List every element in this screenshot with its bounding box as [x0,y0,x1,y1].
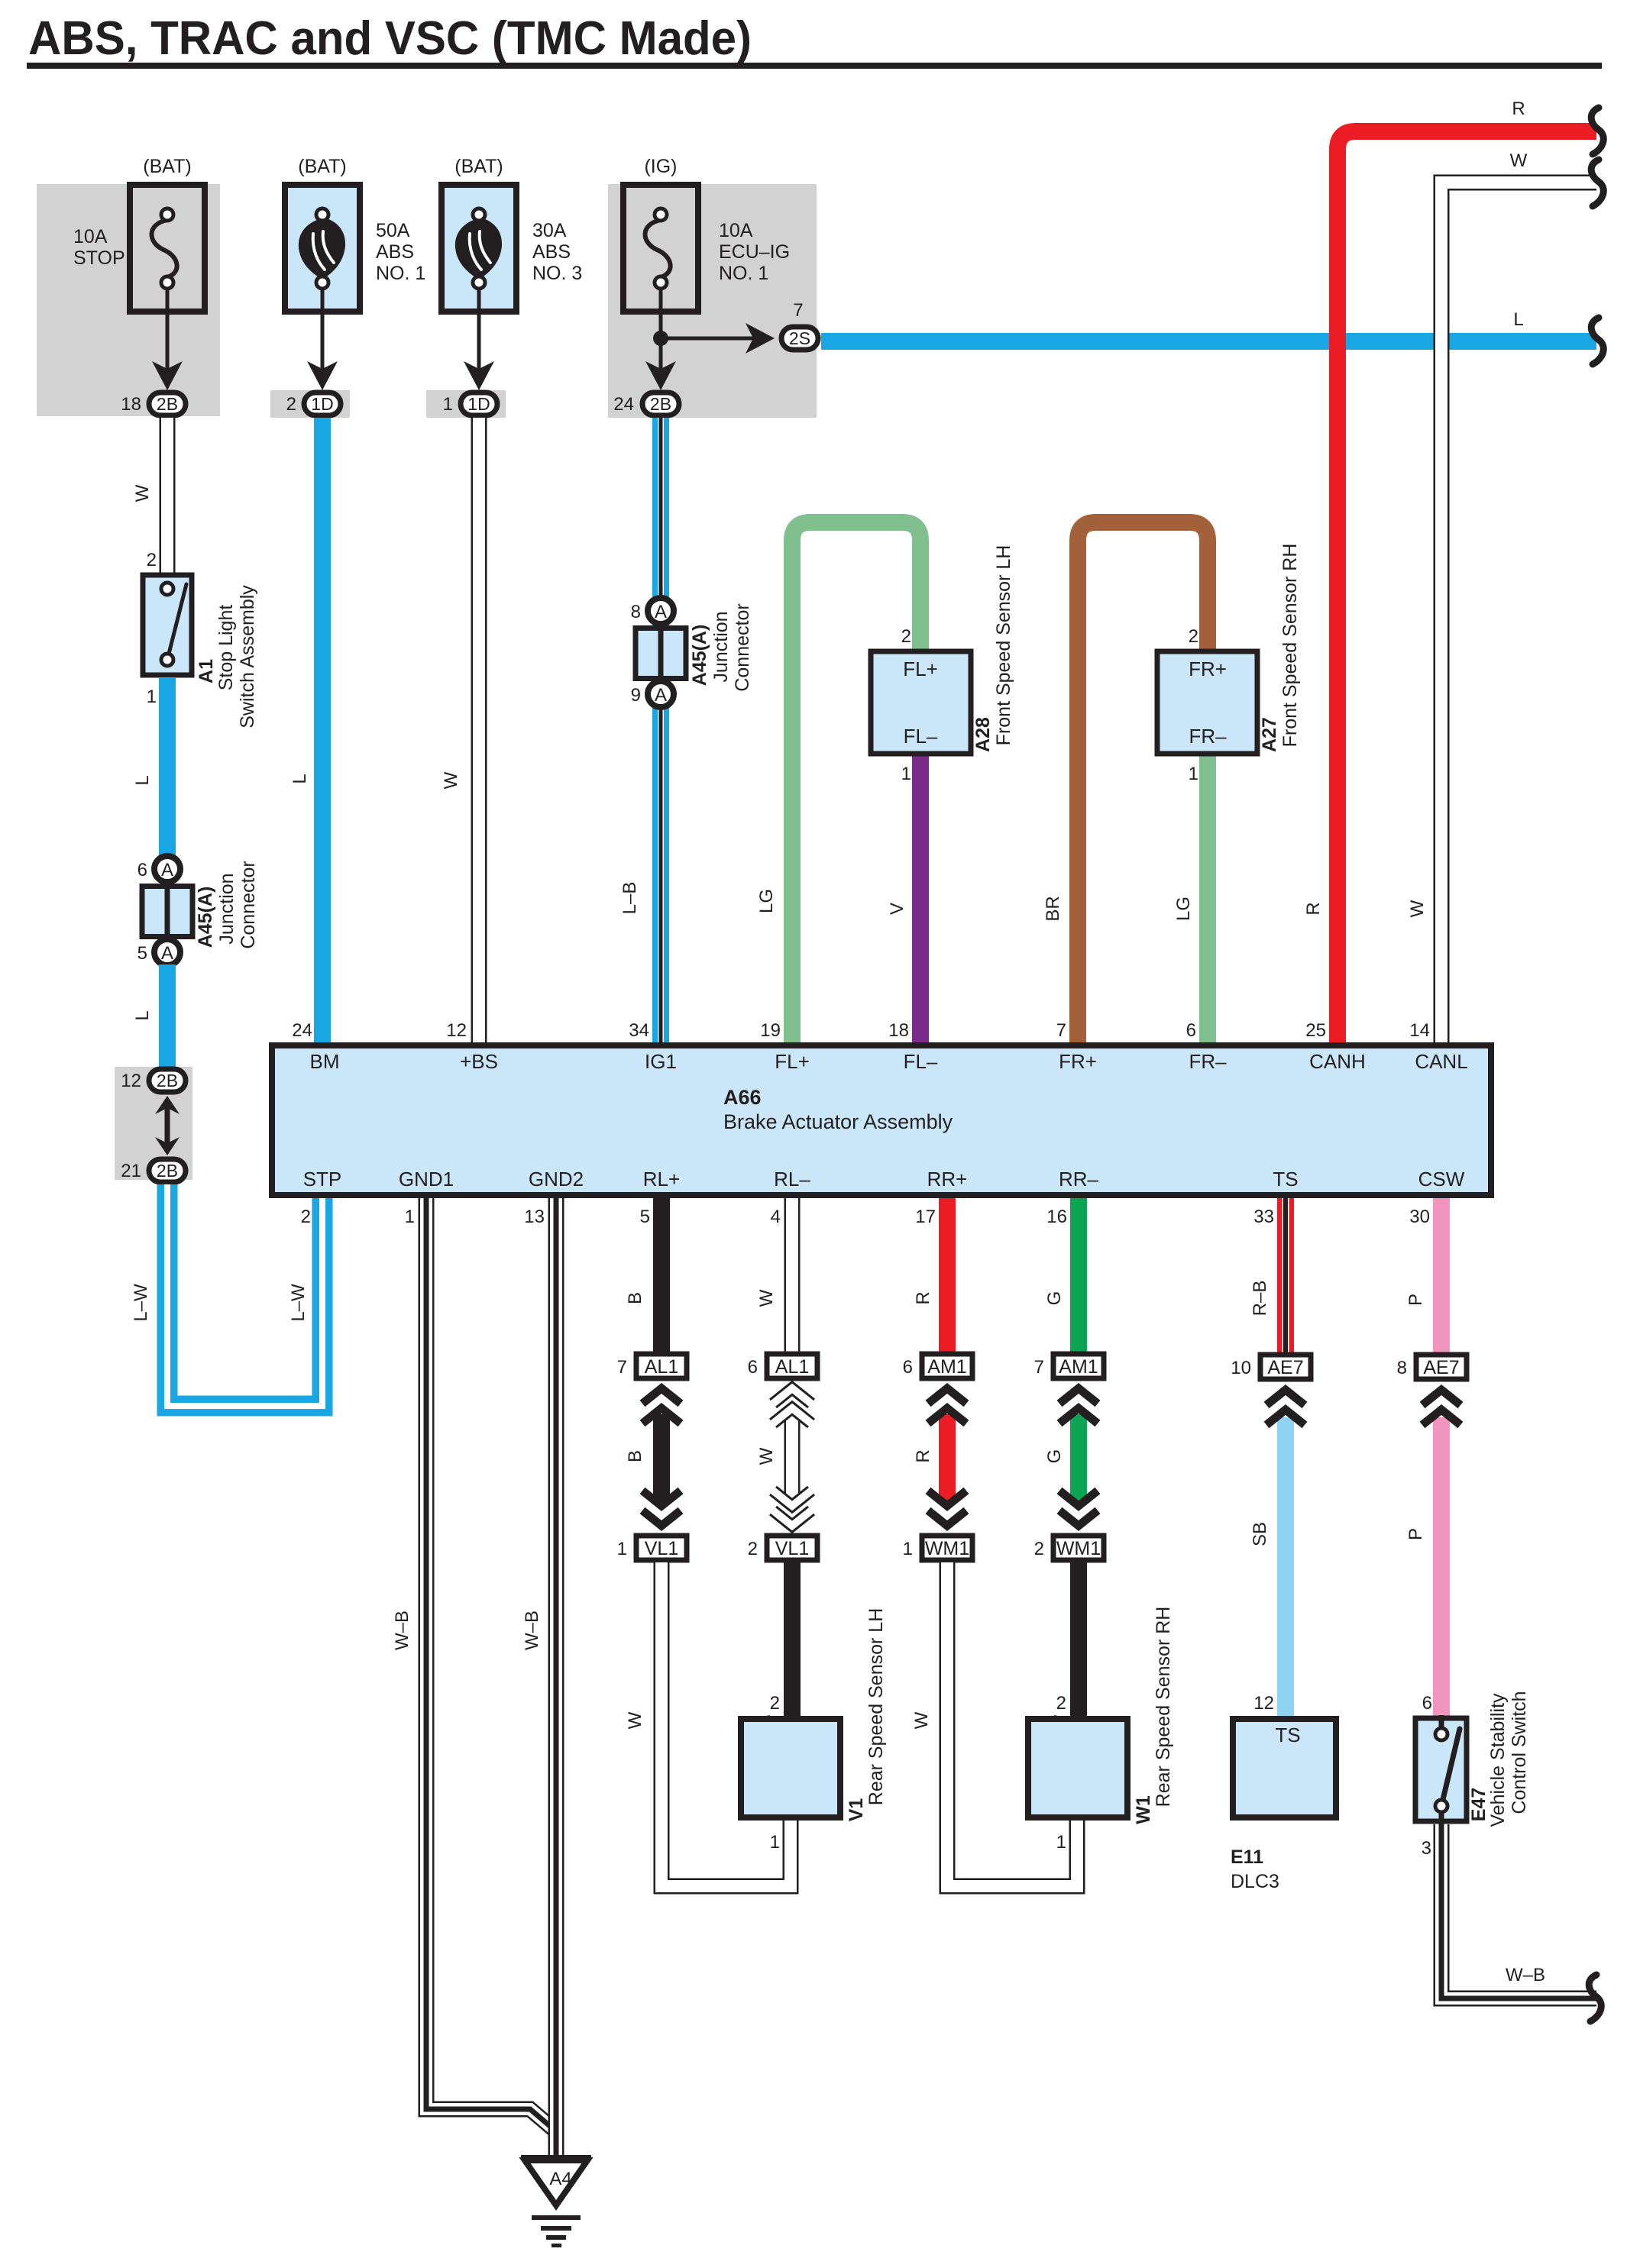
svg-text:RL+: RL+ [643,1168,680,1191]
svg-text:2: 2 [770,1693,780,1714]
harness arrows below 6 AM1 [928,1388,966,1404]
double arrow between 2B connectors [165,1103,170,1150]
svg-text:W–B: W–B [392,1611,412,1650]
connector 8 AE7 [1416,1355,1467,1379]
connector 1 WM1 [922,1536,972,1560]
svg-text:1: 1 [770,1832,780,1853]
svg-text:E11: E11 [1231,1846,1263,1868]
wire V purple from A28 FL- to A66 pin 18 [912,754,929,1045]
svg-text:(BAT): (BAT) [454,156,503,177]
svg-text:W: W [132,484,153,502]
svg-text:Connector: Connector [732,603,753,691]
svg-text:4: 4 [771,1207,781,1227]
svg-text:WM1: WM1 [925,1538,969,1559]
wire fuse STOP to connector 2B [166,289,170,378]
svg-text:WM1: WM1 [1056,1538,1101,1559]
wire L from A1 to junction connector [159,678,176,857]
svg-text:W–B: W–B [1506,1965,1545,1985]
svg-text:13: 13 [524,1207,545,1227]
svg-text:FR–: FR– [1189,725,1227,748]
wire B from A66 RL+ to 7 AL1 [653,1198,670,1352]
svg-text:AM1: AM1 [1059,1356,1098,1378]
svg-text:R: R [913,1291,933,1304]
connector 12 2B [149,1069,186,1092]
gray shield box around ECU-IG fuse, 2B and 2S connectors [608,184,817,418]
svg-text:A4: A4 [549,2169,571,2189]
fuse 30A ABS NO. 3 [442,185,516,312]
svg-text:16: 16 [1046,1207,1067,1227]
connector 2 VL1 [767,1536,817,1560]
svg-text:NO. 1: NO. 1 [719,263,768,284]
svg-text:7: 7 [617,1357,627,1378]
harness arrows below 7 AL1 [642,1388,681,1404]
harness arrows below 7 AM1 [1059,1388,1098,1404]
svg-text:A: A [161,943,173,964]
break symbol L wire [1591,318,1603,364]
svg-text:10A: 10A [73,226,108,247]
svg-text:7: 7 [793,300,803,321]
svg-text:2S: 2S [789,328,810,348]
svg-text:Junction: Junction [710,611,732,682]
svg-text:A27: A27 [1259,717,1280,752]
svg-text:6: 6 [903,1357,913,1378]
svg-text:10A: 10A [719,220,753,241]
break symbol W-B wire [1589,1975,1601,2021]
gray shield box around STOP fuse and 2B connector [37,184,220,416]
wire fuse ABS NO.3 to connector 1D [477,289,481,378]
wire W-B from E47 pin 3 to right edge [1441,1824,1596,1998]
junction connector A45(A) left [142,887,192,937]
svg-text:2B: 2B [157,394,178,414]
svg-text:G: G [1044,1449,1065,1464]
svg-text:W: W [756,1289,777,1307]
svg-text:IG1: IG1 [645,1050,677,1073]
svg-text:L: L [1513,309,1523,330]
rear speed sensor RH W1 [1028,1719,1127,1817]
svg-text:Connector: Connector [238,861,259,948]
wire L-W loop from 21 2B to A66 STP [167,1184,322,1406]
svg-text:E47: E47 [1468,1788,1490,1821]
svg-text:L–B: L–B [619,882,640,915]
svg-text:6: 6 [1186,1020,1196,1041]
brake actuator assembly A66 [272,1045,1491,1195]
harness arrows below 6 AL1 (white) [773,1388,811,1404]
svg-text:FL+: FL+ [775,1050,810,1073]
svg-text:VL1: VL1 [775,1538,809,1559]
wire SB from 10 AE7 to DLC3 [1277,1417,1294,1719]
svg-text:R: R [913,1449,933,1462]
svg-text:19: 19 [760,1020,781,1041]
fuse 10A STOP [130,185,205,312]
svg-text:STP: STP [303,1168,342,1191]
svg-text:L: L [132,1010,153,1020]
svg-text:1D: 1D [467,394,490,414]
svg-text:P: P [1405,1528,1426,1540]
svg-text:1: 1 [147,687,157,707]
connector 7 2S [781,327,818,350]
wire L from junction to 12 2B [159,964,176,1068]
svg-text:SB: SB [1250,1522,1270,1546]
svg-text:Rear Speed Sensor RH: Rear Speed Sensor RH [1153,1607,1174,1808]
svg-text:W–B: W–B [522,1611,542,1650]
svg-text:Vehicle Stability: Vehicle Stability [1487,1693,1509,1827]
svg-text:A: A [161,860,173,880]
svg-text:ECU–IG: ECU–IG [719,241,790,263]
svg-text:2: 2 [1189,626,1198,647]
svg-text:W: W [1407,900,1428,917]
svg-text:12: 12 [446,1020,467,1041]
svg-text:Switch Assembly: Switch Assembly [237,585,258,729]
svg-text:2: 2 [147,550,157,570]
svg-text:Brake Actuator Assembly: Brake Actuator Assembly [723,1110,953,1133]
svg-text:18: 18 [888,1020,909,1041]
svg-text:P: P [1405,1294,1426,1306]
wire CANH red from A66 pin 25 up and right [1338,131,1596,1045]
svg-text:30A: 30A [532,220,567,241]
wire W from 1D to A66 +BS [471,418,487,1045]
svg-text:A45(A): A45(A) [195,887,216,948]
wire B between AL1 and VL1 [653,1414,670,1504]
svg-text:1: 1 [443,394,453,415]
svg-text:L: L [132,775,153,785]
svg-text:6: 6 [137,860,147,880]
gray strip behind connector 2 1D [270,390,350,418]
svg-text:2B: 2B [157,1161,178,1181]
svg-text:A66: A66 [723,1086,762,1109]
connector 7 AL1 [636,1354,687,1378]
wire W from 1 WM1 looping to W1 pin 1 [947,1562,1077,1886]
svg-text:30: 30 [1409,1207,1430,1227]
svg-text:A45(A): A45(A) [689,625,710,687]
wire W-B from A66 GND1 to ground [426,1198,556,2131]
svg-text:AE7: AE7 [1423,1357,1459,1378]
svg-text:34: 34 [629,1020,649,1041]
svg-text:LG: LG [1173,897,1194,921]
svg-text:L–W: L–W [288,1284,309,1322]
svg-text:2: 2 [901,626,911,647]
wire L blue from 2S to right edge [821,333,1596,350]
connector 2 1D [304,393,341,415]
svg-text:2: 2 [1034,1539,1044,1559]
svg-text:8: 8 [631,602,641,622]
wire L from 1D to A66 BM [314,418,331,1045]
svg-text:2: 2 [1056,1693,1066,1714]
svg-text:2: 2 [748,1539,758,1559]
svg-text:Junction: Junction [216,873,238,944]
front speed sensor RH A27 [1157,651,1257,754]
wire W from 1 VL1 looping to V1 pin 1 [661,1562,791,1886]
svg-text:W: W [625,1711,645,1729]
svg-text:TS: TS [1273,1168,1298,1191]
svg-text:14: 14 [1409,1020,1430,1041]
svg-text:Stop Light: Stop Light [215,605,237,691]
vehicle stability control switch E47 [1415,1718,1467,1821]
wire W between AL1 and VL1 [784,1414,801,1504]
svg-text:7: 7 [1056,1020,1066,1041]
svg-text:FL–: FL– [904,725,938,748]
svg-text:TS: TS [1275,1724,1300,1746]
stop light switch A1 [143,575,192,675]
svg-text:AM1: AM1 [927,1356,966,1378]
svg-text:1: 1 [901,764,911,784]
wire R-B from A66 TS to 10 AE7 [1277,1198,1294,1355]
svg-text:5: 5 [640,1207,650,1227]
svg-text:2B: 2B [650,394,671,414]
svg-text:1: 1 [903,1539,913,1559]
rear speed sensor LH V1 [741,1719,840,1817]
title underline [27,63,1602,69]
svg-text:A: A [655,602,667,622]
svg-text:7: 7 [1034,1357,1044,1378]
branch wire to 2S [661,337,760,341]
wire R between AM1 and WM1 [939,1414,956,1504]
wire BR loop from A27 FR+ to A66 pin 7 [1078,522,1208,1045]
connector 1 VL1 [636,1536,687,1560]
connector 24 2B [642,393,679,415]
connector 2 WM1 [1053,1536,1104,1560]
svg-text:W: W [911,1711,932,1729]
svg-text:(BAT): (BAT) [143,156,191,177]
svg-text:1: 1 [1189,764,1198,784]
svg-text:B: B [625,1450,645,1462]
junction dot [653,331,668,346]
svg-text:Front Speed Sensor LH: Front Speed Sensor LH [993,545,1014,746]
svg-text:17: 17 [915,1207,936,1227]
break symbol R wire [1591,108,1603,154]
svg-text:25: 25 [1305,1020,1326,1041]
svg-text:ABS, TRAC and VSC (TMC Made): ABS, TRAC and VSC (TMC Made) [28,12,752,65]
wire fuse ABS NO.1 to connector 1D [321,289,325,378]
svg-text:FL–: FL– [904,1050,938,1073]
wire G between AM1 and WM1 [1070,1414,1087,1504]
svg-text:21: 21 [121,1161,141,1181]
svg-text:L: L [289,774,310,783]
svg-text:Control Switch: Control Switch [1509,1691,1530,1814]
harness arrows above 1 VL1 [642,1510,681,1526]
svg-text:NO. 1: NO. 1 [376,263,425,284]
wire B from 2 WM1 to W1 pin 2 [1070,1562,1087,1716]
harness arrows below 8 AE7 [1422,1390,1460,1405]
harness arrows below 10 AE7 [1266,1390,1305,1405]
connector 10 AE7 [1260,1355,1311,1379]
svg-text:FR+: FR+ [1189,657,1227,680]
svg-text:V: V [887,903,907,915]
svg-text:1: 1 [405,1207,415,1227]
svg-text:18: 18 [121,394,141,415]
harness arrows above 1 WM1 [928,1510,966,1526]
wire LG loop from A28 FL+ to A66 pin 19 [792,522,920,1045]
svg-text:W: W [1510,150,1528,171]
svg-text:10: 10 [1231,1358,1251,1378]
wire G from A66 RR- to 7 AM1 [1070,1198,1087,1352]
svg-text:+BS: +BS [460,1050,498,1073]
gray strip behind connector 1 1D [426,390,506,418]
connector 21 2B [149,1159,186,1182]
wire R from A66 RR+ to 6 AM1 [939,1198,956,1352]
front speed sensor LH A28 [871,651,971,754]
svg-text:CANL: CANL [1415,1050,1467,1073]
gray shield box around 12 2B / 21 2B connectors [115,1067,192,1180]
svg-text:24: 24 [613,394,634,415]
svg-text:NO. 3: NO. 3 [532,263,582,284]
svg-text:DLC3: DLC3 [1231,1871,1279,1892]
svg-text:LG: LG [756,889,777,913]
junction connector A45(A) on IG wire [636,628,686,679]
svg-text:2: 2 [286,394,296,415]
svg-text:AE7: AE7 [1267,1357,1303,1378]
svg-text:GND1: GND1 [399,1168,454,1191]
wire P from A66 CSW to 8 AE7 [1433,1198,1450,1355]
svg-text:BM: BM [310,1050,340,1073]
svg-text:(IG): (IG) [644,156,677,177]
svg-text:FL+: FL+ [903,657,938,680]
svg-text:W1: W1 [1133,1795,1154,1824]
connector 7 AM1 [1053,1354,1104,1378]
wire W-B from A66 GND2 to ground [548,1198,564,2155]
connector 6 AM1 [922,1354,972,1378]
DLC3 E11 [1233,1719,1336,1817]
svg-text:G: G [1044,1291,1065,1306]
svg-text:33: 33 [1253,1207,1274,1227]
svg-text:VL1: VL1 [645,1538,678,1559]
svg-text:R: R [1512,99,1525,119]
svg-text:1D: 1D [311,394,333,414]
svg-text:1: 1 [1056,1832,1066,1853]
svg-text:RR–: RR– [1059,1168,1099,1191]
svg-text:9: 9 [631,685,641,706]
svg-text:B: B [625,1292,645,1304]
wire B from 2 VL1 to V1 pin 2 [784,1562,801,1716]
wire CANL white from A66 pin 14 up and right [1441,183,1596,1045]
svg-text:2: 2 [301,1207,311,1227]
svg-text:A: A [655,685,667,706]
svg-text:24: 24 [292,1020,312,1041]
wire W from 18 2B to stop light switch [160,418,176,575]
svg-text:A28: A28 [972,717,994,752]
connector 1 1D [461,393,497,415]
svg-text:ABS: ABS [532,241,571,263]
svg-text:1: 1 [617,1539,627,1559]
svg-text:RR+: RR+ [927,1168,968,1191]
harness arrows above 2 WM1 [1059,1510,1098,1526]
svg-text:CANH: CANH [1309,1050,1366,1073]
svg-text:AL1: AL1 [775,1356,809,1378]
fuse 10A ECU-IG NO. 1 [623,185,698,312]
connector 18 2B [149,393,186,415]
svg-text:2B: 2B [157,1071,178,1090]
svg-text:AL1: AL1 [645,1356,678,1378]
svg-text:3: 3 [1422,1838,1431,1859]
svg-text:12: 12 [121,1071,141,1091]
svg-text:R: R [1303,902,1324,915]
svg-text:5: 5 [137,943,147,964]
wire L-B from 24 2B to A66 IG1 [652,418,669,1045]
wire LG from A27 FR- to A66 pin 6 [1199,754,1216,1045]
svg-text:RL–: RL– [774,1168,810,1191]
svg-text:ABS: ABS [376,241,414,263]
svg-text:Front Speed Sensor RH: Front Speed Sensor RH [1279,544,1301,748]
fuse 50A ABS NO. 1 [285,185,360,312]
svg-text:W: W [756,1447,777,1465]
svg-text:A1: A1 [196,659,217,683]
svg-text:BR: BR [1043,896,1063,921]
break symbol W wire [1591,160,1603,206]
svg-text:V1: V1 [846,1798,867,1822]
harness arrows above 2 VL1 (white) [773,1510,811,1526]
svg-text:CSW: CSW [1418,1168,1465,1191]
wire fuse ECU-IG down with branch [659,289,663,378]
svg-text:12: 12 [1253,1693,1274,1714]
svg-text:6: 6 [748,1357,758,1378]
svg-text:FR–: FR– [1189,1050,1227,1073]
connector 6 AL1 [767,1354,817,1378]
svg-text:50A: 50A [376,220,410,241]
svg-text:FR+: FR+ [1059,1050,1097,1073]
ground A4 [521,2155,591,2160]
svg-text:R–B: R–B [1250,1281,1270,1317]
svg-text:GND2: GND2 [529,1168,584,1191]
svg-text:STOP: STOP [73,247,125,269]
svg-text:8: 8 [1397,1358,1407,1378]
wire P from 8 AE7 to E47 [1433,1417,1450,1718]
wire W from A66 RL- to 6 AL1 [784,1198,801,1352]
svg-text:6: 6 [1422,1693,1432,1714]
svg-text:W: W [441,771,461,789]
svg-text:(BAT): (BAT) [298,156,346,177]
svg-text:L–W: L–W [131,1284,151,1322]
svg-text:Rear Speed Sensor LH: Rear Speed Sensor LH [865,1608,887,1805]
